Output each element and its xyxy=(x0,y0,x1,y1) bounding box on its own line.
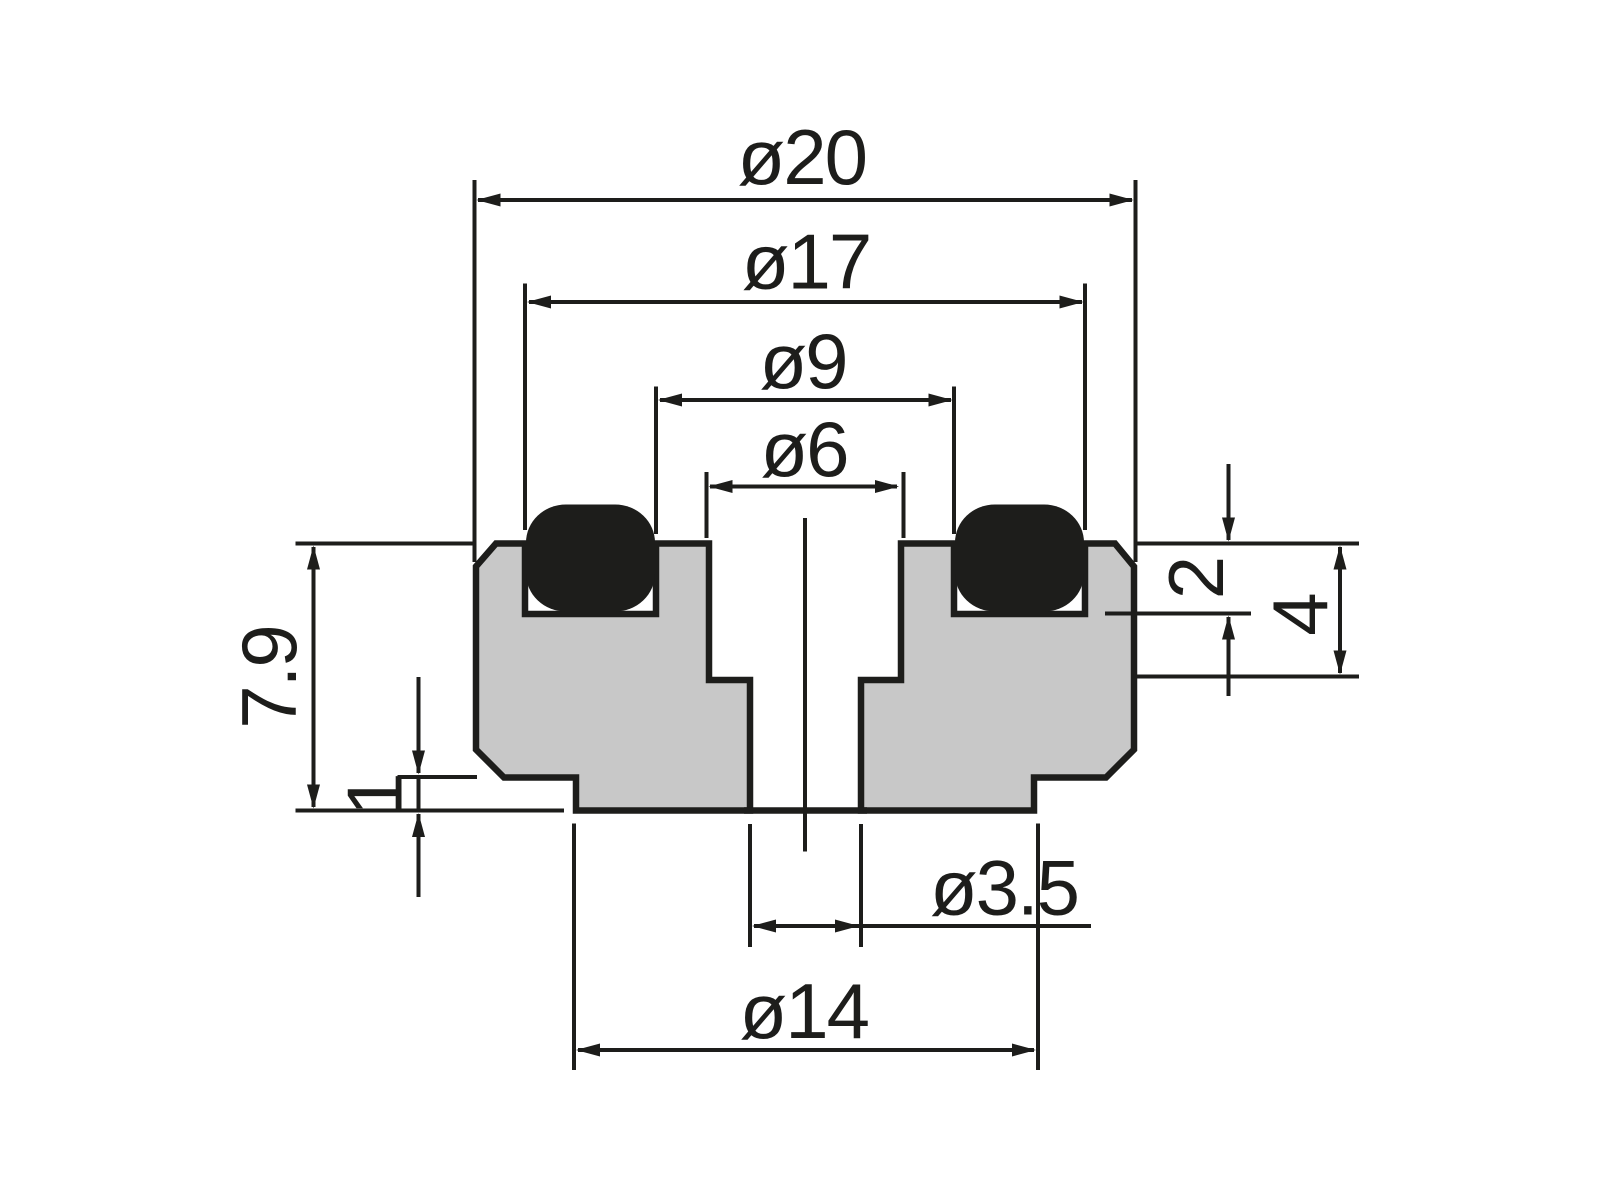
svg-text:4: 4 xyxy=(1256,594,1344,636)
svg-text:ø20: ø20 xyxy=(738,113,866,201)
svg-text:ø17: ø17 xyxy=(742,218,870,306)
svg-text:2: 2 xyxy=(1152,558,1240,599)
svg-text:ø3.5: ø3.5 xyxy=(930,844,1078,932)
svg-text:7.9: 7.9 xyxy=(225,626,313,728)
svg-text:ø9: ø9 xyxy=(759,317,846,405)
svg-text:1: 1 xyxy=(331,774,419,815)
svg-text:ø14: ø14 xyxy=(740,967,869,1055)
svg-text:ø6: ø6 xyxy=(760,405,847,493)
